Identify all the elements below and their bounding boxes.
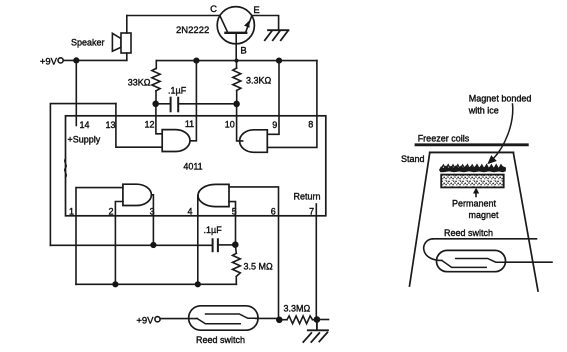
wire pin 9	[267, 61, 279, 135]
resistor R4 3.3MΩ	[282, 316, 314, 324]
wire pin 10	[237, 104, 243, 141]
wire to reed switch	[160, 318, 197, 320]
freezer coils line	[416, 143, 527, 146]
wire pin 5	[229, 202, 236, 245]
wire pin 4	[197, 196, 199, 285]
svg-text:Freezer coils: Freezer coils	[418, 134, 470, 144]
svg-text:Speaker: Speaker	[71, 38, 105, 48]
speaker SP1	[112, 16, 131, 61]
node base crossing	[235, 59, 239, 63]
reed lead upper	[433, 238, 537, 240]
node pin11 bus junction	[193, 58, 199, 64]
node pin4 lower junction	[195, 281, 201, 287]
svg-text:1: 1	[69, 207, 74, 217]
svg-text:.1µF: .1µF	[204, 225, 223, 235]
svg-text:11: 11	[185, 119, 194, 129]
nand gate U1a	[162, 130, 190, 152]
reed switch capsule	[437, 250, 506, 271]
IC U1 4011 body	[66, 116, 326, 216]
node R2 bottom junction	[233, 101, 240, 108]
nand gate U1c	[123, 184, 151, 205]
+9V terminal (bottom)	[155, 317, 160, 322]
node ground junction	[314, 316, 321, 323]
wire emitter	[252, 16, 279, 30]
IC notch squiggle	[65, 159, 67, 178]
svg-text:Permanent: Permanent	[452, 199, 497, 209]
arrow to magnet (up)	[475, 192, 477, 197]
ground (bottom)	[303, 320, 328, 343]
svg-text:Reed switch: Reed switch	[444, 228, 493, 238]
wire collector top	[127, 15, 220, 17]
svg-text:+9V: +9V	[40, 57, 58, 68]
wire pin 6	[229, 187, 279, 320]
pin labels top	[69, 119, 314, 217]
node supply junction	[73, 57, 79, 63]
svg-text:E: E	[253, 5, 259, 16]
svg-text:2N2222: 2N2222	[176, 25, 209, 36]
stand right leg	[513, 152, 538, 291]
reed lead right	[505, 261, 552, 263]
nand gate U1b	[240, 130, 268, 153]
svg-text:Return: Return	[294, 192, 321, 202]
svg-text:with ice: with ice	[468, 106, 499, 116]
svg-text:C: C	[210, 4, 217, 15]
reed switch S1	[189, 306, 258, 330]
node pin3 junction	[150, 242, 156, 248]
wire ground stub	[317, 319, 329, 321]
capacitor C1 .1µF	[159, 98, 234, 112]
svg-text:3.5 MΩ: 3.5 MΩ	[244, 262, 274, 272]
resistor R1 33KΩ	[152, 61, 160, 101]
svg-text:6: 6	[271, 207, 276, 217]
svg-text:10: 10	[225, 120, 235, 130]
svg-text:4: 4	[187, 207, 192, 217]
node R1 bottom junction	[152, 101, 159, 108]
svg-text:7: 7	[309, 207, 314, 217]
node pin2 lower junction	[112, 281, 118, 287]
reed lead loop	[424, 239, 442, 261]
wire output bus	[156, 60, 317, 62]
arrow to magnet	[493, 104, 513, 159]
wire pin 12	[156, 104, 162, 134]
+9V terminal (top)	[58, 58, 63, 63]
wire +9V to speaker	[63, 59, 126, 61]
wire lower bus	[76, 283, 236, 285]
svg-text:+Supply: +Supply	[68, 135, 101, 145]
wire to pin 14	[75, 60, 77, 125]
svg-text:9: 9	[272, 120, 277, 130]
capacitor C2 .1µF	[213, 239, 233, 251]
wire pin 2	[115, 202, 123, 285]
node reed junction	[276, 317, 283, 324]
wire base	[235, 33, 237, 61]
wire feedback bus	[50, 244, 212, 246]
svg-text:B: B	[240, 46, 246, 57]
svg-text:3.3MΩ: 3.3MΩ	[284, 304, 311, 314]
wire reed to node	[256, 318, 281, 319]
ground (emitter)	[265, 30, 289, 40]
svg-text:33KΩ: 33KΩ	[128, 78, 151, 88]
resistor R2 3.3KΩ	[233, 61, 241, 101]
svg-text:8: 8	[308, 120, 313, 130]
permanent magnet	[441, 175, 504, 188]
svg-text:3.3KΩ: 3.3KΩ	[246, 76, 272, 86]
svg-text:magnet: magnet	[469, 210, 500, 220]
wire pin 3	[151, 195, 153, 245]
svg-text:.1µF: .1µF	[168, 86, 187, 96]
svg-text:Reed switch: Reed switch	[196, 335, 245, 345]
svg-text:Magnet bonded: Magnet bonded	[469, 94, 532, 104]
stand top	[430, 151, 514, 153]
nand gate U1d	[198, 184, 229, 206]
wire pin 7	[315, 204, 317, 320]
svg-text:14: 14	[79, 120, 89, 130]
wire pin 13 loop	[50, 104, 116, 246]
stand left leg	[410, 152, 430, 286]
wire pin 11	[190, 61, 196, 141]
wire pin 1	[76, 188, 123, 285]
svg-text:12: 12	[144, 120, 154, 130]
node pin9 bus junction	[276, 58, 282, 64]
transistor Q1 2N2222	[217, 7, 254, 44]
svg-text:Stand: Stand	[401, 154, 425, 164]
wire pin 8	[267, 61, 317, 148]
node C2-R3 junction	[232, 241, 239, 248]
resistor R3 3.5 MΩ	[233, 245, 241, 285]
svg-text:2: 2	[108, 207, 113, 217]
magnet bonded with ice (hatch band)	[439, 165, 506, 173]
svg-text:+9V: +9V	[136, 316, 154, 327]
svg-text:4011: 4011	[183, 162, 202, 172]
svg-text:13: 13	[105, 120, 115, 130]
